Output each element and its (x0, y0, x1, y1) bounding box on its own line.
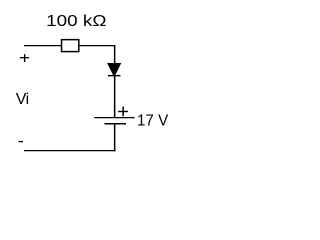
resistor 100 kΩ (box symbol) (62, 40, 79, 52)
wire vertical from diode to battery (114, 76, 116, 118)
diode cathode bar (108, 75, 121, 77)
battery positive plate (long) (94, 117, 134, 119)
wire vertical from battery to bottom (114, 124, 116, 152)
diode (anode triangle pointing down) (109, 64, 119, 74)
node - (input negative terminal) (19, 141, 24, 143)
wire bottom horizontal (24, 150, 115, 152)
svg-text:17 V: 17 V (137, 112, 169, 129)
battery + label (118, 107, 128, 117)
wire top-right horizontal (79, 45, 116, 47)
node + (input positive terminal) (20, 54, 29, 62)
svg-text:100 kΩ: 100 kΩ (46, 13, 106, 30)
wire vertical from top corner to diode (114, 45, 116, 64)
svg-text:Vi: Vi (16, 91, 29, 108)
battery negative plate (short thick) (105, 123, 127, 125)
wire top-left horizontal (24, 45, 62, 47)
